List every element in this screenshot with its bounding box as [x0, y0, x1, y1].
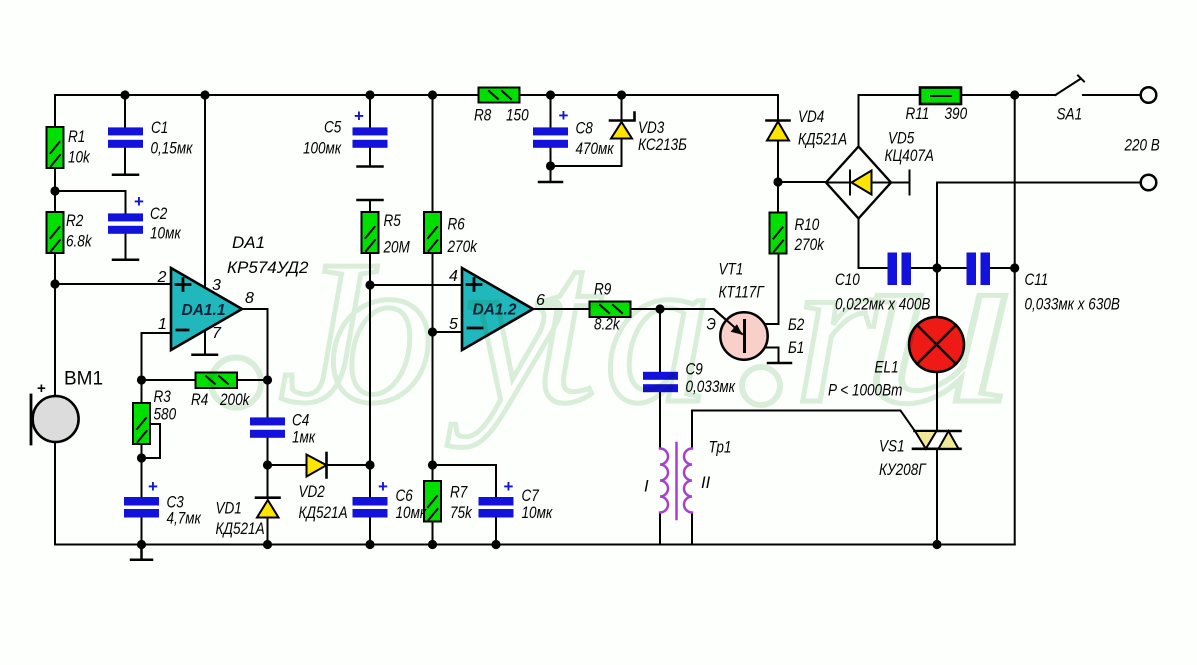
label C2 value — [150, 205, 182, 243]
wire: R1 R2 column — [54, 95, 56, 284]
label C9 value — [686, 361, 736, 397]
ground bar: C1 — [113, 174, 138, 177]
wire: node to C11 — [937, 267, 967, 269]
svg-text:R4: R4 — [191, 391, 208, 409]
wire: R3 tap L-wire — [142, 424, 161, 458]
svg-text:VD1: VD1 — [216, 500, 242, 518]
junction dots: C10 C11 node — [932, 263, 941, 272]
svg-text:C11: C11 — [1025, 271, 1049, 289]
svg-text:КД521А: КД521А — [216, 520, 265, 538]
label VD4 type — [798, 108, 847, 149]
label R8 value — [474, 107, 529, 125]
ground bar: DA1.1 pin7 — [193, 354, 218, 357]
resistor R10 — [770, 213, 787, 254]
wire: DA1.1 pin1 feedback — [142, 333, 172, 380]
wire: DA1.1 pin3 supply stem — [204, 95, 206, 287]
label VS1 type — [879, 438, 926, 480]
resistor R3 — [133, 403, 150, 444]
svg-text:7: 7 — [212, 325, 222, 342]
svg-text:+: + — [378, 477, 388, 496]
wire: C11 to right column — [990, 267, 1015, 269]
wire: top supply rail left segment — [55, 94, 778, 96]
junction dots: left column nodes — [50, 186, 59, 195]
wire: DA1.2 pin6 output to R9 — [533, 308, 590, 310]
wire: bottom common rail — [55, 544, 1015, 546]
terminal 220V bottom — [1141, 175, 1157, 191]
wire: VT1 emitter lead — [660, 309, 742, 334]
bridge rectifier VD5 — [826, 147, 910, 219]
label VD3 type — [638, 119, 687, 154]
transistor VT1 — [714, 309, 768, 360]
junction dots: R4 row and R3 node — [137, 375, 146, 384]
label R1 value — [68, 128, 90, 167]
svg-text:100мк: 100мк — [303, 140, 342, 158]
label C8 value — [576, 120, 615, 159]
resistor R9 — [590, 302, 631, 318]
wire: C10 to node — [911, 267, 937, 269]
wire: VS1 to bottom rail — [936, 449, 938, 545]
svg-text:КУ208Г: КУ208Г — [879, 461, 926, 479]
svg-text:Тр1: Тр1 — [709, 439, 732, 457]
lamp EL1 — [909, 317, 964, 372]
ground bar: C5 bottom — [358, 165, 383, 168]
resistor R5 — [362, 212, 379, 253]
svg-text:1: 1 — [158, 316, 167, 333]
svg-text:C6: C6 — [396, 487, 414, 505]
wire: node R1-R2 to C2 — [55, 191, 126, 260]
svg-text:R7: R7 — [450, 484, 468, 502]
wire: C1 branch — [124, 95, 126, 175]
capacitor C11 — [967, 253, 991, 286]
label VD1 type — [216, 500, 265, 539]
wire: top rail right segment (bridge top to SA1 junction) — [859, 95, 1056, 147]
svg-text:0,033мк x 630В: 0,033мк x 630В — [1025, 296, 1120, 314]
resistor R6 — [424, 212, 441, 253]
diode VD1 — [256, 498, 280, 518]
wire: R5 column — [369, 201, 371, 286]
svg-text:КС213Б: КС213Б — [638, 136, 687, 154]
label R10 value — [794, 216, 825, 254]
svg-text:R11: R11 — [906, 105, 930, 123]
svg-text:a: a — [604, 209, 712, 448]
resistor R2 — [47, 212, 64, 253]
wire: VD3 cathode stem — [621, 95, 623, 120]
junction dots: DA1.2 inputs — [365, 280, 374, 289]
svg-text:КД521А: КД521А — [798, 131, 847, 149]
svg-text:+: + — [37, 380, 46, 397]
resistor R8 — [479, 88, 520, 103]
op-amp DA1.1 — [171, 268, 242, 350]
capacitor C7 — [479, 497, 514, 518]
label R2 value — [66, 212, 92, 251]
svg-text:2: 2 — [157, 269, 167, 286]
label C4 value — [292, 412, 316, 447]
wire: VD4 anode to node — [777, 141, 779, 183]
wire: C3 column — [141, 458, 143, 545]
label C3 value — [167, 494, 202, 528]
svg-text:VD4: VD4 — [798, 108, 824, 126]
svg-text:10мк: 10мк — [396, 504, 428, 522]
svg-text:+: + — [504, 477, 514, 496]
svg-text:150: 150 — [506, 107, 529, 125]
svg-text:C1: C1 — [151, 119, 168, 137]
wire: R10 top stem — [777, 182, 779, 213]
wire: bridge bottom to C10 — [859, 219, 889, 269]
svg-text:BM1: BM1 — [64, 369, 103, 390]
svg-text:C5: C5 — [324, 119, 342, 137]
svg-text:75k: 75k — [450, 504, 472, 522]
junction dot: VD4 R10 bridge node — [773, 177, 782, 186]
svg-text:3: 3 — [212, 277, 221, 294]
svg-text:220 В: 220 В — [1124, 137, 1160, 155]
wire: R9 to node — [631, 308, 661, 310]
label VD5 type — [885, 130, 934, 166]
svg-text:II: II — [701, 474, 711, 492]
svg-text:5: 5 — [449, 316, 458, 333]
label VT1 type — [719, 261, 765, 302]
label R5 value — [383, 212, 410, 257]
svg-text:C8: C8 — [576, 120, 594, 138]
resistor R4 — [196, 373, 238, 389]
capacitor C2 — [108, 213, 143, 233]
resistor R1 — [47, 127, 64, 168]
ground bar: bottom rail at C3 — [131, 545, 152, 560]
ground bar: C2 — [113, 259, 138, 262]
wire: transformer secondary loop top — [692, 411, 915, 431]
capacitor C9 — [643, 372, 678, 392]
ground bar: C8 — [539, 181, 562, 184]
junction dots: bottom rail — [137, 540, 146, 549]
wire: VD2 row — [268, 464, 371, 466]
svg-text:+: + — [148, 477, 158, 496]
svg-text:6.8k: 6.8k — [66, 233, 92, 251]
microphone BM1 — [31, 380, 79, 444]
label C7 value — [522, 487, 554, 522]
label R9 value — [594, 281, 620, 334]
wire: VD4 cathode stem — [777, 95, 779, 120]
label C11 value — [1025, 271, 1120, 314]
svg-text:DA1.1: DA1.1 — [182, 302, 226, 319]
label R7 value — [450, 484, 472, 523]
svg-text:VD2: VD2 — [299, 483, 325, 501]
wire: C8 ground stem — [550, 166, 552, 182]
transformer Tr1 winding II — [684, 449, 692, 513]
wire: winding I bottom lead — [659, 513, 661, 545]
junction dot: R9 output node — [655, 304, 664, 313]
diode VD4 — [767, 121, 790, 141]
wire: C4 to VD1 — [267, 438, 269, 545]
wire: C5 branch — [369, 95, 371, 166]
terminal 220V top — [1141, 87, 1157, 103]
wire: DA1.1 pin7 stem — [204, 331, 206, 354]
label EL1 type — [828, 359, 902, 400]
svg-text:I: I — [644, 478, 649, 496]
capacitor C4 — [250, 417, 285, 437]
svg-text:10k: 10k — [68, 149, 90, 167]
capacitor C5 — [353, 127, 388, 147]
watermark Joyta.ru — [211, 196, 1016, 451]
junction dot: C8 VD3 node — [546, 161, 555, 170]
svg-text:КТ117Г: КТ117Г — [719, 284, 765, 302]
wire: 220V lower line — [937, 183, 1141, 269]
junction dots: VD2 row — [263, 460, 272, 469]
svg-text:o: o — [327, 209, 435, 448]
svg-text:R1: R1 — [68, 128, 85, 146]
wire: winding II top lead — [691, 411, 693, 449]
wire: EL1 top lead — [936, 268, 938, 317]
capacitor C8 — [533, 127, 568, 147]
svg-text:VD5: VD5 — [888, 130, 915, 148]
wire: DA1.1 output pin8 down — [242, 309, 268, 417]
capacitor C10 — [888, 253, 912, 286]
ground bar: R5 top — [358, 199, 383, 202]
resistor R11 — [920, 88, 961, 105]
op-amp DA1.2 — [462, 268, 533, 350]
svg-text:C2: C2 — [150, 205, 167, 223]
wire: SA1 to terminal — [1083, 94, 1141, 96]
ground bar: VT1 B1 — [768, 362, 791, 365]
junction dots: top rail — [120, 90, 129, 99]
triac VS1 — [913, 431, 961, 449]
svg-text:390: 390 — [945, 105, 968, 123]
wire: R7 to rail — [432, 522, 434, 545]
svg-text:470мк: 470мк — [576, 140, 615, 158]
svg-text:DA1: DA1 — [232, 233, 265, 252]
transformer Tr1 core — [675, 443, 678, 519]
capacitor C1 — [108, 127, 143, 147]
capacitor C3 — [124, 497, 159, 518]
zener VD3 — [610, 113, 635, 139]
svg-text:R3: R3 — [154, 388, 172, 406]
wire: C8 branch — [550, 95, 552, 166]
wire: winding II bottom lead — [691, 513, 693, 545]
wire: R5 column to C6 — [369, 285, 371, 545]
wire: VT1 B2 lead to R10 — [745, 254, 779, 325]
diode VD2 — [307, 453, 327, 478]
svg-text:R2: R2 — [66, 212, 83, 230]
wire: DA1.2 pin5 input — [433, 331, 463, 333]
svg-text:+: + — [134, 192, 144, 211]
svg-text:КЦ407А: КЦ407А — [885, 147, 934, 165]
svg-text:+: + — [354, 107, 364, 126]
label C5 value — [303, 119, 342, 158]
svg-text:4,7мк: 4,7мк — [167, 510, 202, 528]
svg-text:VT1: VT1 — [719, 261, 744, 279]
label VD2 type — [299, 483, 348, 522]
wire: left column BM1 — [54, 95, 56, 545]
label R4 value — [191, 391, 250, 409]
transformer Tr1 winding I — [660, 449, 668, 513]
svg-text:580: 580 — [154, 406, 177, 424]
wire: C9 column — [659, 309, 661, 449]
svg-text:8: 8 — [245, 290, 254, 307]
svg-text:C7: C7 — [522, 487, 540, 505]
label R11 value — [906, 105, 968, 123]
svg-text:10мк: 10мк — [150, 225, 182, 243]
wire: DA1.2 pin4 input row — [370, 284, 462, 286]
svg-text:SA1: SA1 — [1057, 106, 1083, 124]
label R6 value — [447, 216, 478, 257]
svg-text:R8: R8 — [474, 107, 492, 125]
label C6 value — [396, 487, 428, 522]
svg-text:t: t — [534, 199, 602, 451]
label R3 value — [154, 388, 177, 424]
svg-text:u: u — [861, 196, 1016, 451]
switch SA1 — [1056, 76, 1085, 96]
svg-text:VD3: VD3 — [638, 119, 665, 137]
wire: R6 column — [432, 95, 434, 481]
svg-text:4: 4 — [449, 268, 458, 285]
svg-text:R6: R6 — [448, 216, 466, 234]
svg-text:КД521А: КД521А — [299, 504, 348, 522]
wire: right vertical column — [1014, 95, 1016, 545]
svg-text:0,15мк: 0,15мк — [151, 140, 194, 158]
svg-text:10мк: 10мк — [522, 504, 554, 522]
label C10 value — [835, 271, 930, 314]
wire: C7 branch — [433, 465, 497, 545]
wire: R3 column — [141, 380, 143, 458]
capacitor C6 — [353, 497, 388, 518]
label DA1 type — [227, 233, 309, 277]
svg-text:+: + — [559, 106, 569, 125]
TEXTLABELS — [64, 105, 1160, 538]
wire: DA1.1 pin2 input — [55, 283, 171, 285]
wire: R4 row — [142, 379, 268, 381]
wire: C8 to VD3 bottom — [551, 139, 622, 167]
resistor R7 — [424, 481, 441, 522]
wire: node to bridge left corner — [778, 181, 826, 183]
wire: VT1 B1 lead — [745, 348, 779, 363]
wire: EL1 to VS1 — [936, 372, 938, 431]
label C1 value — [151, 119, 194, 158]
